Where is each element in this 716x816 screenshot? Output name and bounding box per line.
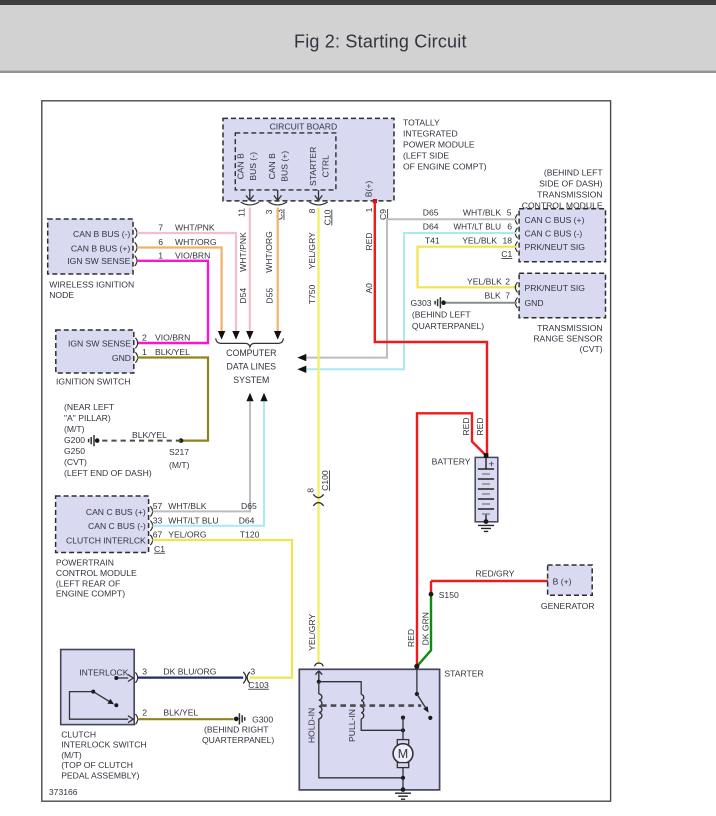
svg-text:WHT/PNK: WHT/PNK [175, 223, 215, 233]
starter coil feed arrow [315, 671, 322, 682]
pull-in coil lower wire [361, 719, 403, 731]
svg-text:T41: T41 [425, 236, 440, 246]
svg-text:WHT/LT BLU: WHT/LT BLU [168, 515, 218, 525]
ground at starter [395, 793, 411, 799]
svg-text:WHT/ORG: WHT/ORG [175, 237, 217, 247]
module U1 TIPM circuit board outer box [223, 118, 394, 200]
svg-text:3: 3 [250, 667, 255, 677]
coil L2 PULL-IN [361, 694, 364, 718]
svg-text:HOLD-IN: HOLD-IN [306, 708, 316, 743]
splice S150 [429, 592, 434, 597]
wire WHT/PNK D54 from board pin 11 [249, 208, 251, 332]
PCM pin 33 bracket [150, 521, 152, 531]
svg-text:POWER MODULE: POWER MODULE [403, 140, 475, 150]
board pin 11 output arrow [246, 190, 254, 200]
svg-text:(BEHIND RIGHT: (BEHIND RIGHT [204, 725, 269, 735]
svg-text:BLK/YEL: BLK/YEL [163, 708, 198, 718]
battery bottom junction [484, 519, 489, 524]
svg-text:(BEHIND LEFT: (BEHIND LEFT [544, 168, 603, 178]
ground G303 symbol [435, 297, 446, 308]
svg-text:D64: D64 [239, 515, 255, 525]
svg-text:TRANSMISSION: TRANSMISSION [537, 189, 602, 199]
junction red green at starter [414, 664, 419, 669]
svg-text:(NEAR LEFT: (NEAR LEFT [64, 402, 115, 412]
svg-text:IGNITION SWITCH: IGNITION SWITCH [56, 376, 130, 386]
svg-text:"A" PILLAR): "A" PILLAR) [64, 413, 111, 423]
interlock pin 2 bracket [135, 714, 137, 724]
svg-text:7: 7 [505, 291, 510, 301]
svg-text:57: 57 [153, 501, 163, 511]
svg-text:18: 18 [502, 236, 512, 246]
starter switch feed wire [416, 666, 418, 694]
svg-text:G200: G200 [64, 435, 85, 445]
module transmission range sensor box [519, 273, 605, 318]
svg-text:D64: D64 [423, 222, 439, 232]
svg-text:IGN SW SENSE: IGN SW SENSE [68, 339, 131, 349]
svg-text:WHT/LT BLU: WHT/LT BLU [454, 222, 502, 232]
TCM header text [522, 168, 604, 211]
svg-text:Fig 2: Starting Circuit: Fig 2: Starting Circuit [294, 32, 467, 52]
wire BLK/YEL ignition switch GND to S217 [137, 358, 208, 441]
svg-text:6: 6 [158, 237, 163, 247]
svg-text:WIRELESS IGNITION: WIRELESS IGNITION [49, 280, 134, 290]
module wireless ignition node box [48, 219, 133, 274]
svg-text:G250: G250 [64, 446, 85, 456]
svg-text:1: 1 [364, 207, 374, 212]
board pin label CAN B BUS (+) [267, 151, 289, 182]
PCM caption [56, 558, 137, 599]
board pin 8 connector bracket [309, 202, 327, 205]
svg-text:CAN B BUS (+): CAN B BUS (+) [71, 244, 131, 254]
svg-text:QUARTERPANEL): QUARTERPANEL) [412, 321, 484, 331]
module TCM box [519, 209, 605, 262]
svg-text:3: 3 [264, 209, 274, 214]
ground G200 symbol [89, 435, 100, 446]
svg-text:C3: C3 [275, 209, 285, 220]
svg-text:373166: 373166 [49, 787, 78, 797]
svg-text:SYSTEM: SYSTEM [233, 375, 269, 385]
header gray band [0, 5, 716, 71]
svg-text:C1: C1 [501, 249, 512, 259]
svg-text:INTERLOCK SWITCH: INTERLOCK SWITCH [61, 740, 146, 750]
clutch interlock switch caption [61, 730, 146, 781]
hold-in coil branch wire [318, 682, 320, 694]
svg-text:INTERLOCK: INTERLOCK [79, 668, 128, 678]
range sensor caption [533, 323, 602, 354]
svg-text:CAN C BUS (-): CAN C BUS (-) [525, 229, 583, 239]
svg-text:3: 3 [142, 667, 147, 677]
computer data lines left arrows [297, 354, 306, 373]
wire YEL/ORG T120 PCM pin 67 to C103 [153, 540, 293, 678]
starter switch blade [417, 694, 426, 709]
svg-text:WHT/BLK: WHT/BLK [463, 207, 501, 217]
computer data lines up arrows [246, 393, 267, 402]
board pin 8 output arrow [315, 190, 323, 200]
svg-text:CAN C BUS (+): CAN C BUS (+) [525, 215, 585, 225]
svg-text:IGN SW SENSE: IGN SW SENSE [67, 256, 130, 266]
svg-text:STARTER: STARTER [308, 147, 318, 186]
svg-text:2: 2 [142, 333, 147, 343]
motor M1 body [393, 744, 413, 764]
svg-text:NODE: NODE [49, 290, 74, 300]
svg-text:67: 67 [153, 530, 163, 540]
wire WHT/BLK D65 PCM pin 57 to computer data lines [153, 401, 251, 511]
svg-text:11: 11 [236, 208, 246, 217]
ground G300 symbol [234, 713, 245, 724]
svg-text:7: 7 [158, 223, 163, 233]
WIRELESS IGNITION NODE caption [49, 280, 134, 300]
starter coil feed junction [317, 680, 321, 684]
wire DK BLU/ORG interlock pin 3 to C103 [138, 676, 244, 678]
svg-text:CLUTCH INTERLCK: CLUTCH INTERLCK [66, 536, 146, 546]
svg-text:(BEHIND LEFT: (BEHIND LEFT [412, 310, 471, 320]
junction at starter case [401, 787, 406, 792]
module starter box [299, 669, 439, 790]
battery cell stack [478, 458, 494, 522]
svg-text:CAN C BUS (+): CAN C BUS (+) [86, 507, 146, 517]
wire BLK range sensor pin 7 to G303 [446, 302, 517, 304]
TCM pin 6 bracket [515, 228, 517, 238]
svg-text:CONTROL MODULE: CONTROL MODULE [56, 568, 137, 578]
svg-text:8: 8 [307, 208, 317, 213]
wire RED S150 riser [430, 581, 432, 594]
board pin 3 output arrow [274, 190, 282, 200]
ground at battery [478, 525, 494, 531]
svg-text:CAN B BUS (-): CAN B BUS (-) [73, 229, 130, 239]
svg-text:VIO/BRN: VIO/BRN [175, 250, 210, 260]
computer data lines brace [216, 338, 284, 347]
svg-text:(LEFT REAR OF: (LEFT REAR OF [56, 578, 120, 588]
ignition switch pin 2 bracket [135, 338, 137, 348]
svg-text:(CVT): (CVT) [580, 344, 603, 354]
svg-text:5: 5 [507, 207, 512, 217]
svg-text:(LEFT END OF DASH): (LEFT END OF DASH) [64, 468, 152, 478]
svg-text:C100: C100 [320, 470, 330, 491]
svg-text:D65: D65 [423, 207, 439, 217]
header top dark bar [0, 0, 716, 5]
svg-text:WHT/BLK: WHT/BLK [168, 501, 206, 511]
svg-text:DK BLU/ORG: DK BLU/ORG [163, 667, 216, 677]
svg-text:RED: RED [461, 417, 471, 435]
svg-text:S150: S150 [439, 590, 459, 600]
WIN pin 6 bracket [135, 242, 137, 252]
svg-text:YEL/BLK: YEL/BLK [467, 276, 502, 286]
wire DK GRN S150 to starter junction [417, 594, 431, 666]
interlock pin 3 bracket [135, 672, 137, 682]
svg-text:CTRL: CTRL [320, 155, 330, 178]
svg-text:QUARTERPANEL): QUARTERPANEL) [202, 735, 274, 745]
svg-text:TOTALLY: TOTALLY [403, 118, 440, 128]
TCM pin 5 bracket [515, 214, 517, 224]
wire RED A0 from board B(+) to battery [375, 202, 487, 454]
svg-text:PRK/NEUT SIG: PRK/NEUT SIG [525, 242, 586, 252]
svg-text:2: 2 [505, 276, 510, 286]
battery positive terminal [484, 453, 489, 458]
interlock switch contact and pin 3 lead [116, 675, 133, 682]
svg-text:INTEGRATED: INTEGRATED [403, 129, 458, 139]
svg-text:BUS (+): BUS (+) [280, 151, 290, 182]
module ignition switch box [56, 330, 134, 373]
svg-text:(TOP OF CLUTCH: (TOP OF CLUTCH [61, 760, 133, 770]
svg-text:BUS (-): BUS (-) [248, 152, 258, 181]
svg-text:8: 8 [306, 488, 316, 493]
svg-text:YEL/GRY: YEL/GRY [307, 613, 317, 650]
svg-text:T750: T750 [307, 284, 317, 304]
svg-text:BLK/YEL: BLK/YEL [132, 430, 167, 440]
TIPM location text [403, 118, 487, 172]
wire VIO/BRN WIN pin 1 to ignition switch pin 2 [137, 261, 208, 343]
ignition switch pin 1 bracket [135, 352, 137, 362]
svg-text:B(+): B(+) [364, 181, 374, 198]
svg-text:C10: C10 [322, 209, 332, 225]
wire RED/GRY to generator [431, 580, 549, 582]
G303 location text [412, 310, 484, 332]
battery box [475, 457, 498, 521]
wire dashed BLK/YEL S217 to G200 [99, 440, 181, 442]
svg-text:RED: RED [406, 629, 416, 647]
interlock switch blade [93, 692, 111, 703]
WIN pin 1 bracket [135, 256, 137, 266]
svg-text:A0: A0 [364, 283, 374, 294]
wire WHT/ORG D55 from board pin 3 [277, 208, 279, 332]
svg-text:2: 2 [142, 708, 147, 718]
board pin label STARTER CTRL [308, 147, 330, 186]
svg-text:POWERTRAIN: POWERTRAIN [56, 558, 114, 568]
svg-text:PRK/NEUT SIG: PRK/NEUT SIG [525, 283, 586, 293]
svg-text:GENERATOR: GENERATOR [541, 601, 595, 611]
svg-text:CLUTCH: CLUTCH [61, 730, 96, 740]
svg-text:RED/GRY: RED/GRY [476, 569, 515, 579]
wire WHT/ORG from WIN pin 6 [137, 248, 222, 332]
wire WHT/LT BLU D64 TCM pin 6 to computer data lines [307, 233, 518, 369]
svg-text:C103: C103 [248, 680, 269, 690]
svg-text:D55: D55 [264, 288, 274, 304]
motor lead wire [402, 718, 404, 740]
connector C100 symbol [313, 494, 323, 506]
svg-text:OF ENGINE COMPT): OF ENGINE COMPT) [403, 162, 487, 172]
node computer data lines down arrows [218, 331, 282, 340]
svg-text:YEL/GRY: YEL/GRY [307, 232, 317, 269]
svg-text:CAN B: CAN B [236, 153, 246, 180]
G200 location text block [64, 402, 152, 478]
motor ground wire [402, 768, 404, 790]
svg-text:COMPUTER: COMPUTER [226, 348, 276, 358]
junction motor bottom [401, 776, 405, 780]
motor M1 brush lower [397, 763, 408, 768]
svg-text:RANGE SENSOR: RANGE SENSOR [533, 334, 602, 344]
PCM pin 57 bracket [150, 506, 152, 516]
svg-text:BLK: BLK [485, 291, 502, 301]
board pin 3 connector bracket [269, 202, 287, 205]
svg-text:G303: G303 [411, 298, 432, 308]
svg-text:CAN B: CAN B [267, 153, 277, 180]
wire WHT/LT BLU D64 PCM pin 33 to computer data lines [153, 401, 265, 525]
svg-text:T120: T120 [240, 530, 260, 540]
svg-text:WHT/PNK: WHT/PNK [238, 232, 248, 272]
pull-in coil branch wire [319, 682, 361, 695]
motor lead upper dot [401, 716, 405, 720]
svg-text:TRANSMISSION: TRANSMISSION [537, 323, 602, 333]
hold-in coil lower wire [319, 719, 403, 778]
svg-text:D54: D54 [238, 288, 248, 304]
svg-text:ENGINE COMPT): ENGINE COMPT) [56, 589, 125, 599]
wire WHT/PNK from WIN pin 7 [137, 233, 236, 331]
solenoid linkage dashed line [321, 704, 421, 707]
wire RED battery positive to starter junction [417, 413, 486, 666]
junction pull-in to motor lead [401, 728, 405, 732]
module generator box [548, 565, 593, 595]
svg-text:GND: GND [525, 298, 544, 308]
diagram frame [42, 101, 611, 801]
svg-text:SIDE OF DASH): SIDE OF DASH) [539, 179, 603, 189]
board pin label CAN B BUS (-) [236, 152, 258, 181]
WIN pin 7 bracket [135, 228, 137, 238]
coil L1 HOLD-IN [319, 694, 322, 719]
svg-text:M: M [398, 747, 408, 761]
svg-text:C1: C1 [154, 544, 165, 554]
range sensor pin 2 bracket [515, 282, 517, 292]
svg-text:GND: GND [112, 353, 131, 363]
range sensor pin 7 bracket [515, 298, 517, 308]
PCM pin 67 bracket [150, 535, 152, 545]
module PCM box [56, 496, 149, 553]
svg-text:BATTERY: BATTERY [432, 457, 471, 467]
svg-text:STARTER: STARTER [444, 669, 483, 679]
svg-text:6: 6 [507, 222, 512, 232]
generator pin B(+) dot [547, 578, 552, 583]
starter switch pivot dot [415, 692, 419, 696]
svg-text:CIRCUIT BOARD: CIRCUIT BOARD [270, 122, 338, 132]
svg-text:G300: G300 [252, 715, 273, 725]
svg-text:B (+): B (+) [553, 576, 572, 586]
svg-text:VIO/BRN: VIO/BRN [155, 333, 190, 343]
svg-text:(LEFT SIDE: (LEFT SIDE [403, 151, 449, 161]
svg-text:(M/T): (M/T) [64, 424, 85, 434]
circuit board inner box [235, 133, 336, 190]
svg-text:DATA LINES: DATA LINES [227, 362, 277, 372]
motor M1 brush upper [397, 740, 408, 745]
svg-text:YEL/BLK: YEL/BLK [462, 236, 497, 246]
svg-text:S217: S217 [169, 447, 189, 457]
svg-text:D65: D65 [241, 501, 257, 511]
svg-text:(CVT): (CVT) [64, 457, 87, 467]
svg-text:RED: RED [364, 232, 374, 250]
node B(+) red terminal dot [373, 199, 377, 203]
starter switch contact dot [428, 716, 432, 720]
wire BLK/YEL interlock pin 2 to G300 [138, 718, 234, 720]
svg-text:DK GRN: DK GRN [420, 612, 430, 645]
svg-text:YEL/ORG: YEL/ORG [168, 530, 207, 540]
wire YEL/BLK T41 TCM pin 18 to range sensor pin 2 [418, 247, 518, 288]
splice S217 [179, 438, 184, 443]
yellow wire hop into starter [315, 663, 324, 666]
svg-text:BLK/YEL: BLK/YEL [155, 347, 190, 357]
svg-text:PEDAL ASSEMBLY): PEDAL ASSEMBLY) [61, 770, 139, 780]
svg-text:WHT/ORG: WHT/ORG [264, 231, 274, 273]
wire YEL/GRY T750 from board pin 8 to starter [317, 208, 319, 664]
svg-text:(M/T): (M/T) [169, 460, 190, 470]
svg-text:1: 1 [158, 250, 163, 260]
svg-text:CAN C BUS (-): CAN C BUS (-) [88, 521, 146, 531]
connector C103 symbol [243, 672, 250, 684]
svg-text:(M/T): (M/T) [61, 750, 82, 760]
node label COMPUTER DATA LINES SYSTEM [226, 348, 276, 385]
svg-text:33: 33 [153, 515, 163, 525]
interlock switch pin 2 lead [70, 692, 134, 723]
svg-text:PULL-IN: PULL-IN [347, 709, 357, 742]
header bottom divider [0, 71, 716, 73]
svg-text:1: 1 [142, 347, 147, 357]
wire WHT/BLK D65 TCM pin 5 to computer data lines [307, 219, 518, 357]
svg-text:RED: RED [475, 417, 485, 435]
module clutch interlock switch box [61, 650, 135, 725]
board pin 11 connector bracket [241, 202, 259, 205]
TCM pin 18 bracket [515, 242, 517, 252]
